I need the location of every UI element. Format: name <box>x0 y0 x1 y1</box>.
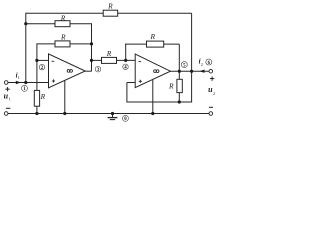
current arrow i2 <box>200 70 205 73</box>
terminal port2 minus <box>209 112 213 116</box>
wire op1 ground stub <box>64 80 66 113</box>
terminal port2 plus <box>209 69 213 73</box>
node 6 label <box>206 59 212 66</box>
node 5 label <box>181 62 187 69</box>
svg-text:6: 6 <box>208 61 211 66</box>
wire V5 op2 plus input down <box>126 83 128 103</box>
svg-text:R: R <box>60 33 66 42</box>
port1 plus sign <box>5 87 9 91</box>
node 0 label (ground) <box>122 115 128 122</box>
op-amp U2 inverting input mark <box>139 61 142 63</box>
node 2 label <box>39 64 45 70</box>
node 4 label <box>123 64 129 70</box>
resistor R middle (node3-node4) <box>102 57 117 63</box>
junction node 1 on input wire <box>24 81 27 84</box>
wire op2 ground stub <box>152 79 154 113</box>
svg-text:1: 1 <box>23 87 26 92</box>
op-amp U2 <box>135 54 170 88</box>
terminal port1 minus <box>4 112 8 116</box>
op-amp U1 inverting input mark <box>52 60 55 62</box>
resistor R left vertical (node2-ground) <box>34 90 39 106</box>
junction feedback R row at node 3 column <box>90 42 93 45</box>
junction node 2 at op-amp U1 inverting input <box>35 59 38 62</box>
svg-text:R: R <box>60 13 66 22</box>
resistor R op2 feedback (node4-node5) <box>147 41 164 47</box>
svg-text:R: R <box>106 49 112 58</box>
node 3 label <box>95 66 101 73</box>
ground symbol <box>108 114 118 120</box>
port2 plus sign <box>210 76 214 80</box>
wire H7 op1 output stub <box>85 70 91 72</box>
svg-text:3: 3 <box>97 68 100 73</box>
wire ground rail <box>8 113 209 115</box>
wire H11 bottom link <box>127 101 192 103</box>
svg-text:2: 2 <box>213 91 215 96</box>
resistor R top (node1-node6) <box>103 10 118 16</box>
svg-text:1: 1 <box>18 75 20 80</box>
resistor R right vertical (node5-bottom link) <box>177 79 182 92</box>
wire V3 vertical to node3 <box>91 23 93 71</box>
wire H9 op2 output to terminal <box>170 70 209 72</box>
svg-text:R: R <box>150 32 156 41</box>
svg-text:2: 2 <box>41 66 44 71</box>
junction node 6 column on output wire <box>190 70 193 73</box>
terminal port1 plus <box>4 81 8 85</box>
svg-text:4: 4 <box>124 66 127 71</box>
svg-text:1: 1 <box>9 97 11 102</box>
wire H10 op2 plus input <box>127 82 135 84</box>
junction ground symbol on rail <box>111 112 114 115</box>
port2 minus sign <box>209 106 213 108</box>
resistor R lower-left (node2-node3) <box>55 41 70 47</box>
wire V7 node5 down through R to H11 <box>178 71 180 102</box>
svg-text:5: 5 <box>183 63 186 68</box>
junction right R bottom on link wire <box>178 100 181 103</box>
wire H2 upper-left resistor row <box>26 23 92 25</box>
junction left R to ground rail <box>35 112 38 115</box>
resistor R upper-left (node1-node3) <box>55 21 70 27</box>
wire V4 node4 up <box>125 44 127 61</box>
wire V1 left vertical node1 <box>25 13 27 83</box>
svg-text:2: 2 <box>201 62 203 67</box>
wire top feedback H1 node1-to-node6 <box>26 12 192 14</box>
junction U2 ground stub on rail <box>151 112 154 115</box>
wire H8 op2 feedback row <box>125 43 179 45</box>
op-amp U1 infinity gain mark <box>67 70 72 73</box>
op-amp U1 <box>49 54 86 88</box>
junction node 3 <box>90 59 93 62</box>
junction at node 1 upper feedback tap <box>24 22 27 25</box>
junction node 4 <box>124 59 127 62</box>
wire H5 node3 to node4 <box>92 59 136 61</box>
node 1 label <box>22 85 28 92</box>
svg-text:0: 0 <box>124 117 127 122</box>
current arrow i1 <box>16 81 21 84</box>
wire V6 feedback down to node5 <box>178 44 180 71</box>
junction U1 ground stub on rail <box>63 112 66 115</box>
junction node 5 at U2 output <box>178 70 181 73</box>
wire V2 node2 vertical <box>36 43 38 113</box>
wire H4 inverting input op1 <box>37 59 49 61</box>
op-amp U2 infinity gain mark <box>154 70 159 73</box>
port1 minus sign <box>6 107 10 109</box>
wire H6 port1 input <box>8 82 49 84</box>
svg-text:R: R <box>168 81 174 90</box>
svg-text:R: R <box>107 1 113 10</box>
op-amp U2 non-inverting input mark <box>139 80 142 82</box>
wire V8 right vertical node6 <box>191 13 193 102</box>
svg-text:R: R <box>40 92 46 101</box>
wire H3 lower-left resistor row <box>37 43 92 45</box>
op-amp U1 non-inverting input mark <box>52 80 55 82</box>
